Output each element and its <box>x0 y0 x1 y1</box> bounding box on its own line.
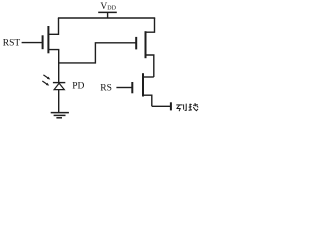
transistor M1 reset: gate bar <box>42 35 44 49</box>
Vdd power bar <box>98 11 117 13</box>
Vdd label <box>100 2 116 12</box>
wire RS to gate <box>116 87 131 89</box>
svg-text:DD: DD <box>107 5 116 11</box>
transistor M2 source follower: drain lead <box>146 18 155 32</box>
photodiode PD: bottom wire <box>58 90 60 113</box>
wire node to M2 gate <box>59 43 136 63</box>
photodiode PD: light arrow 1 <box>43 75 50 80</box>
svg-text:PD: PD <box>72 82 84 92</box>
photodiode PD: cathode bar <box>53 82 65 84</box>
wire Vdd rail <box>58 17 155 19</box>
label PD <box>72 82 84 92</box>
transistor M2 source follower: source lead <box>146 55 154 77</box>
photodiode PD: light arrow 2 <box>42 81 49 86</box>
transistor M2 source follower: gate bar <box>135 37 137 50</box>
label column line (列线) <box>176 103 198 111</box>
photodiode PD: triangle <box>54 83 64 89</box>
transistor M1 reset: source lead <box>48 50 58 64</box>
transistor M3 row select: source lead <box>143 95 152 106</box>
transistor M3 row select: drain lead <box>143 76 154 78</box>
photodiode PD: top wire <box>58 63 60 83</box>
wire Vdd tick <box>107 12 109 18</box>
线 <box>189 103 192 106</box>
transistor M1 reset: drain lead <box>48 18 58 34</box>
列 <box>176 104 182 106</box>
transistor M3 row select: channel bar <box>142 73 144 96</box>
wire RST to gate <box>22 42 42 44</box>
ground <box>51 113 69 118</box>
label RST <box>3 39 21 49</box>
svg-text:RST: RST <box>3 39 21 49</box>
wire output to column line <box>152 105 171 107</box>
svg-text:RS: RS <box>100 84 112 94</box>
transistor M2 source follower: channel bar <box>145 31 147 58</box>
label RS <box>100 84 112 94</box>
transistor M3 row select: gate bar <box>131 82 133 93</box>
output terminal bar <box>170 102 172 110</box>
transistor M1 reset: channel bar <box>47 26 49 53</box>
